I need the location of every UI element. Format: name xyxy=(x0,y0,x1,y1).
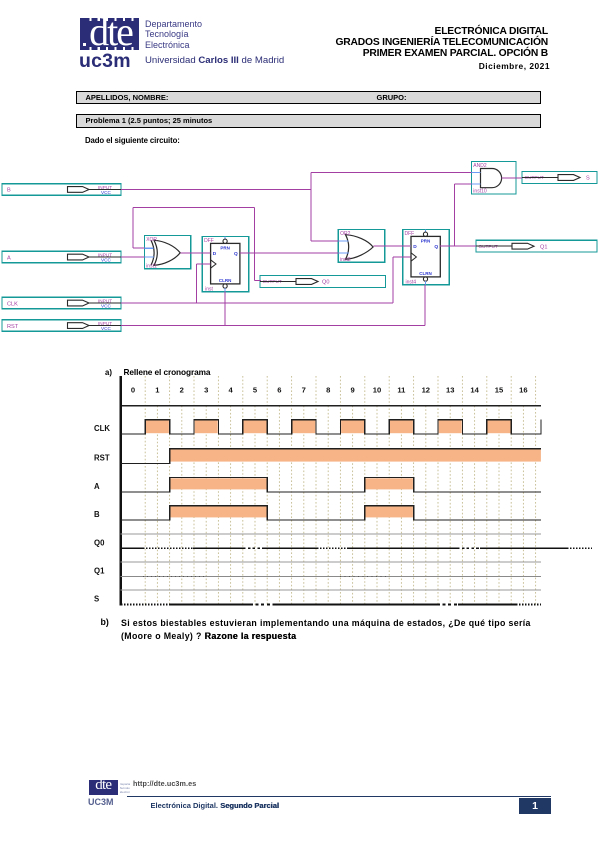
S answer baseline xyxy=(121,604,541,606)
signal labels xyxy=(94,424,110,604)
wire feedback vertical at node Q0 xyxy=(254,208,256,281)
svg-text:2: 2 xyxy=(180,386,184,395)
wire node Q0 to output pin xyxy=(255,280,261,282)
svg-text:14: 14 xyxy=(470,386,479,395)
time scale numbers 0-16 xyxy=(131,386,528,395)
guide line Q1 high xyxy=(121,561,541,563)
svg-text:B: B xyxy=(94,510,100,519)
wire feedback into XOR upper input xyxy=(133,247,144,249)
svg-text:Q1: Q1 xyxy=(94,566,105,575)
wire CLK up to DFF1 clock xyxy=(197,264,211,303)
and-gate inst10 xyxy=(472,162,517,195)
wire B junction vertical xyxy=(310,172,312,240)
integer dashed gridlines xyxy=(157,406,523,605)
wire DFF Q to OR2 lower input xyxy=(240,252,338,254)
output pin Q0 xyxy=(260,276,386,288)
svg-text:9: 9 xyxy=(350,386,354,395)
d-flip-flop inst xyxy=(202,236,249,292)
svg-text:CLK: CLK xyxy=(94,424,110,433)
wire RST horizontal xyxy=(121,325,425,327)
Q1 answer baseline xyxy=(121,575,541,577)
svg-text:3: 3 xyxy=(204,386,208,395)
A waveform xyxy=(121,478,541,493)
svg-text:13: 13 xyxy=(446,386,454,395)
svg-text:12: 12 xyxy=(422,386,430,395)
wire XOR output to DFF D xyxy=(180,252,210,254)
output pin Q1 xyxy=(476,240,597,252)
d-flip-flop inst4 xyxy=(403,229,450,285)
input pin B xyxy=(2,184,121,196)
wire feedback top horizontal xyxy=(133,207,255,209)
guide line Q0 high xyxy=(121,533,541,535)
wire AND2 output to S xyxy=(502,177,523,179)
svg-text:0: 0 xyxy=(131,386,135,395)
svg-text:6: 6 xyxy=(277,386,281,395)
title Rellene el cronograma xyxy=(124,367,211,377)
svg-text:15: 15 xyxy=(495,386,504,395)
svg-text:Q0: Q0 xyxy=(94,538,105,547)
wire B to OR2 upper input xyxy=(311,240,339,242)
wire feedback left vertical xyxy=(132,208,134,249)
B waveform xyxy=(121,506,541,520)
svg-text:1: 1 xyxy=(155,386,160,395)
svg-text:10: 10 xyxy=(373,386,381,395)
Q0 answer baseline xyxy=(121,547,592,549)
svg-text:7: 7 xyxy=(302,386,306,395)
RST waveform fill xyxy=(170,449,541,461)
RST waveform xyxy=(121,449,541,464)
svg-text:RST: RST xyxy=(94,453,110,462)
svg-text:5: 5 xyxy=(253,386,258,395)
wire DFF2 Q to output Q1 xyxy=(440,245,476,247)
wire CLK horizontal xyxy=(121,302,393,304)
wire Q1 to AND2 vertical xyxy=(454,184,456,246)
svg-text:4: 4 xyxy=(228,386,233,395)
svg-text:Rellene el cronograma: Rellene el cronograma xyxy=(124,367,211,377)
or-gate inst2 xyxy=(338,229,385,263)
vertical axis xyxy=(119,376,122,605)
svg-text:8: 8 xyxy=(326,386,330,395)
wire B to junction xyxy=(121,189,311,191)
wire CLK up to DFF2 clock xyxy=(393,257,411,303)
input pin A xyxy=(2,251,121,262)
wire B to AND2 upper input xyxy=(311,171,472,173)
half-unit dashed gridlines xyxy=(145,376,535,605)
svg-text:A: A xyxy=(94,482,100,491)
wire A to XOR input xyxy=(121,256,144,258)
CLK waveform fill xyxy=(146,420,511,433)
input pin CLK xyxy=(2,297,121,309)
wire OR2 output to DFF2 D xyxy=(373,245,410,247)
wire RST up to DFF2 CLRN xyxy=(424,285,426,326)
section a label xyxy=(105,368,112,377)
CLK waveform xyxy=(121,420,541,434)
wire RST up to DFF1 CLRN xyxy=(224,292,226,326)
svg-text:16: 16 xyxy=(519,386,527,395)
A waveform fill xyxy=(170,478,413,489)
svg-text:a): a) xyxy=(105,368,112,377)
xor-gate inst1 xyxy=(144,236,190,270)
guide line S high xyxy=(121,589,541,591)
svg-text:S: S xyxy=(94,594,99,603)
input pin RST xyxy=(2,320,121,332)
output pin S xyxy=(522,172,597,184)
svg-text:11: 11 xyxy=(397,386,406,395)
B waveform fill xyxy=(170,506,413,517)
header separator line xyxy=(120,405,541,407)
wire Q1 to AND2 lower input xyxy=(455,183,472,185)
